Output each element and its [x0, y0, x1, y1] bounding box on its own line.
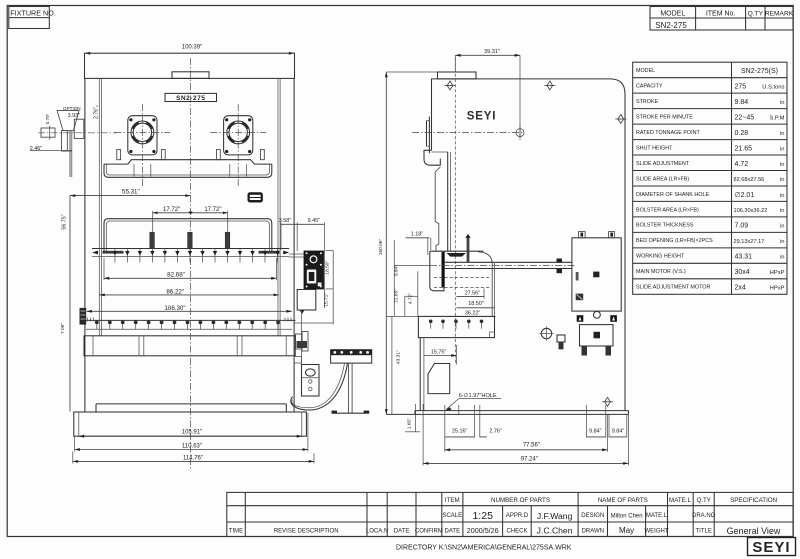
svg-text:∅2.01: ∅2.01 [735, 192, 755, 199]
overall height dim line 160.06 [378, 72, 437, 414]
svg-text:15.75": 15.75" [431, 350, 446, 356]
svg-text:43.31": 43.31" [395, 350, 401, 364]
svg-text:HPxP: HPxP [770, 270, 785, 276]
svg-text:CONFIRM: CONFIRM [415, 528, 443, 534]
side body outline [432, 79, 626, 411]
svg-text:DRAWN: DRAWN [582, 528, 604, 534]
svg-text:9.84: 9.84 [735, 99, 749, 106]
svg-text:MATE.L: MATE.L [646, 513, 668, 519]
dimension 100.39 top [85, 45, 294, 55]
svg-text:J.C.Chen: J.C.Chen [537, 526, 573, 536]
svg-text:SLIDE AREA (LR×FB): SLIDE AREA (LR×FB) [636, 176, 689, 182]
svg-text:2x4: 2x4 [735, 285, 746, 292]
svg-text:Q.TY: Q.TY [696, 497, 710, 504]
svg-text:in: in [780, 131, 785, 137]
svg-text:SEYI: SEYI [752, 539, 790, 556]
svg-text:18.50": 18.50" [324, 261, 330, 275]
svg-text:100.39": 100.39" [182, 45, 202, 51]
rear cover plate [424, 117, 440, 166]
svg-text:in: in [780, 239, 785, 245]
svg-text:1.65": 1.65" [406, 418, 412, 429]
svg-text:27.56": 27.56" [465, 291, 480, 297]
svg-text:ITEM No.: ITEM No. [706, 11, 736, 18]
svg-text:MAIN MOTOR (V.S.): MAIN MOTOR (V.S.) [636, 269, 686, 275]
slide screw black bar [442, 252, 445, 288]
svg-text:DATE: DATE [445, 528, 461, 534]
svg-text:56.75": 56.75" [61, 214, 67, 229]
svg-text:18.50": 18.50" [468, 301, 483, 307]
svg-text:General View: General View [727, 526, 781, 536]
svg-text:STROKE: STROKE [636, 99, 659, 105]
upright inner lines right [277, 78, 279, 335]
svg-text:82.68": 82.68" [167, 272, 185, 279]
title block row2 texts [442, 513, 715, 519]
left ratchet mechanism [80, 308, 87, 325]
upright inner lines left [98, 78, 100, 335]
svg-text:SPECIFICATION: SPECIFICATION [730, 497, 777, 504]
svg-text:1.18": 1.18" [411, 232, 423, 238]
svg-text:S.P.M: S.P.M [769, 115, 784, 121]
svg-text:DRA.NO: DRA.NO [692, 513, 716, 519]
svg-text:82.68x27.56: 82.68x27.56 [734, 177, 765, 183]
svg-text:2.46": 2.46" [30, 146, 42, 152]
svg-text:2.76": 2.76" [489, 429, 501, 435]
flange hidden lines under step [133, 164, 135, 176]
left vertical dimension 56.75 [61, 196, 70, 412]
svg-text:WORKING HEIGHT: WORKING HEIGHT [636, 254, 685, 260]
right flange cylinder [210, 104, 266, 186]
knockout pin [467, 236, 470, 262]
svg-text:NAME OF PARTS: NAME OF PARTS [598, 497, 648, 504]
position target symbol [540, 327, 554, 341]
svg-text:SN2-275: SN2-275 [176, 95, 205, 102]
svg-text:in: in [780, 193, 785, 199]
svg-text:STROKE PER MINUTE: STROKE PER MINUTE [636, 114, 693, 120]
side top tab [438, 72, 477, 79]
svg-text:NUMBER OF PARTS: NUMBER OF PARTS [491, 497, 550, 504]
dimension 114.76 [73, 452, 314, 464]
svg-text:7.09: 7.09 [735, 223, 749, 230]
slide top step band [104, 160, 272, 164]
hole callout 6-1.97 [445, 392, 501, 411]
svg-text:106.30x36.22: 106.30x36.22 [734, 208, 768, 214]
small block part [557, 335, 565, 349]
svg-text:55.31": 55.31" [122, 189, 140, 196]
crown outer side edges [84, 78, 86, 412]
SN2-275 nameplate [165, 93, 217, 102]
dimension 82.68 [104, 258, 277, 280]
left dim stack lines [386, 240, 446, 432]
dimension 77.56 [445, 414, 608, 451]
svg-text:DESIGN: DESIGN [581, 513, 604, 519]
svg-text:29.13x27.17: 29.13x27.17 [734, 239, 765, 245]
dimension 86.22 [100, 289, 279, 297]
svg-text:39.31": 39.31" [484, 49, 500, 55]
dimension 1.18 [406, 232, 431, 255]
svg-text:in: in [780, 177, 785, 183]
svg-text:May: May [619, 526, 634, 535]
svg-text:LOCA.N: LOCA.N [366, 528, 388, 534]
svg-text:in: in [780, 255, 785, 261]
svg-text:0.79": 0.79" [45, 113, 50, 124]
side base plate [386, 405, 628, 414]
cushion pins x3 [150, 232, 155, 248]
side control panel [289, 251, 323, 289]
svg-text:SCALE: SCALE [442, 513, 462, 519]
svg-text:0.28: 0.28 [735, 130, 749, 137]
dimension 36.22 [447, 311, 496, 317]
svg-text:21.65": 21.65" [393, 289, 399, 303]
top right model table [650, 7, 794, 31]
dimension 106.30 [87, 305, 292, 313]
svg-text:in: in [780, 224, 785, 230]
crown underside line [432, 151, 448, 153]
svg-text:FIXTURE NO.: FIXTURE NO. [10, 8, 56, 17]
svg-text:4.72: 4.72 [735, 161, 749, 168]
svg-text:77.56": 77.56" [523, 443, 540, 449]
right control dims 3.58 / 9.45 [279, 218, 325, 308]
svg-text:in: in [780, 146, 785, 152]
clamp wedge dark [447, 253, 466, 257]
svg-text:7.09": 7.09" [60, 323, 66, 334]
svg-text:97.24": 97.24" [521, 456, 538, 462]
svg-text:21.65: 21.65 [735, 145, 753, 152]
svg-text:2000/5/26: 2000/5/26 [467, 526, 499, 535]
front view vertical centerline [190, 58, 192, 470]
main motor box [572, 232, 621, 322]
left shank option mechanism [30, 106, 116, 177]
svg-text:RATED TONNAGE POINT: RATED TONNAGE POINT [636, 130, 701, 136]
bed bolt row [83, 318, 296, 330]
svg-text:275: 275 [735, 84, 747, 91]
svg-text:9.84": 9.84" [589, 429, 601, 435]
bed bolts [95, 321, 280, 330]
panel mounting box below [297, 290, 316, 365]
slide vertical centerline dashed [454, 58, 456, 365]
gib tabs on step band [117, 150, 121, 160]
dimension 110.63 [75, 413, 308, 452]
svg-text:HPxP: HPxP [770, 286, 785, 292]
fixture no. box [9, 7, 56, 29]
svg-text:CAPACITY: CAPACITY [636, 84, 663, 90]
svg-text:9.45": 9.45" [308, 218, 320, 224]
small gearbox right of bed [296, 332, 309, 352]
hidden dash lines bed opening [434, 277, 490, 279]
dimension 105.91 [79, 430, 302, 438]
svg-text:DATE: DATE [394, 528, 410, 534]
body front face curve [478, 252, 492, 317]
slide top plate [430, 250, 484, 252]
svg-text:105.91": 105.91" [182, 430, 202, 436]
bolster side view [418, 316, 494, 337]
svg-text:22~45: 22~45 [735, 114, 755, 121]
svg-text:SN2-275(S): SN2-275(S) [741, 68, 778, 75]
left flange cylinder [115, 104, 171, 186]
flexible hose to pedestal [291, 363, 348, 410]
svg-text:ITEM: ITEM [445, 497, 460, 504]
svg-text:MATE.L: MATE.L [669, 497, 691, 504]
rail studs [113, 249, 280, 263]
slide adjust motor box [580, 325, 614, 356]
svg-text:Q.TY: Q.TY [748, 11, 764, 18]
svg-text:25.16": 25.16" [452, 429, 467, 435]
svg-text:17.72": 17.72" [163, 207, 180, 213]
svg-text:TITLE: TITLE [696, 528, 712, 534]
svg-text:43.31: 43.31 [735, 254, 753, 261]
knockout rail [92, 249, 289, 257]
svg-text:DIRECTORY K:\SN2\AMERICA\GENER: DIRECTORY K:\SN2\AMERICA\GENERAL\275SA.W… [396, 545, 572, 552]
svg-text:APPR.D: APPR.D [506, 513, 529, 519]
svg-text:SLIDE ADJUSTMENT: SLIDE ADJUSTMENT [636, 161, 690, 167]
svg-text:U.S.tons: U.S.tons [762, 85, 784, 91]
slide band [104, 164, 272, 177]
svg-text:2.76"₀: 2.76"₀ [94, 105, 100, 119]
svg-text:SN2-275: SN2-275 [655, 21, 687, 30]
svg-text:4.72": 4.72" [408, 293, 414, 304]
crankshaft centerline and target [412, 125, 524, 140]
title block grid [227, 492, 793, 536]
dimension 15.75 [424, 345, 457, 365]
svg-text:6-∅1.97"HOLE: 6-∅1.97"HOLE [459, 392, 497, 399]
slide guides [447, 152, 449, 251]
scrap chute [428, 364, 450, 394]
svg-text:SHUT HEIGHT: SHUT HEIGHT [636, 145, 673, 151]
svg-text:160.06": 160.06" [378, 239, 384, 256]
title block row3 texts [229, 528, 712, 534]
svg-text:DIAMETER OF SHANK HOLE: DIAMETER OF SHANK HOLE [636, 192, 709, 198]
slide lower block [430, 251, 444, 291]
bolster [84, 336, 295, 356]
bottom dims of side view [445, 414, 627, 451]
dimensions 17.72 / 17.72 [153, 207, 228, 232]
title block header texts [445, 497, 777, 504]
svg-text:36.22": 36.22" [465, 311, 480, 317]
svg-text:30x4: 30x4 [735, 269, 750, 276]
crown lifting tab [172, 72, 209, 79]
drive rod to motor [430, 259, 575, 274]
svg-text:110.63": 110.63" [182, 444, 202, 450]
svg-text:17.72": 17.72" [204, 207, 221, 213]
dimension 27.56 [457, 289, 485, 299]
svg-text:REMARK: REMARK [765, 11, 794, 18]
svg-text:in: in [780, 162, 785, 168]
svg-text:1:25: 1:25 [472, 510, 493, 522]
svg-text:BED OPENING (LR×FB)×2PCS: BED OPENING (LR×FB)×2PCS [636, 238, 713, 244]
slide adjust indicator plate [248, 192, 263, 202]
datum markers [445, 81, 627, 406]
svg-text:BOLSTER THICKNESS: BOLSTER THICKNESS [636, 223, 694, 229]
svg-text:J.F.Wang: J.F.Wang [537, 511, 573, 521]
bed upper deck [104, 219, 272, 252]
svg-text:BOLSTER AREA (LR×FB): BOLSTER AREA (LR×FB) [636, 207, 699, 213]
svg-text:MODEL: MODEL [636, 68, 655, 74]
svg-text:in: in [780, 100, 785, 106]
svg-text:9.84": 9.84" [394, 265, 400, 276]
dimension 97.24 [423, 404, 628, 465]
svg-text:MODEL: MODEL [660, 11, 685, 18]
svg-text:15.71": 15.71" [323, 293, 329, 307]
svg-text:TIME: TIME [229, 528, 243, 534]
dimension 55.31 [70, 189, 191, 197]
svg-text:9.84": 9.84" [612, 429, 624, 435]
dimension 18.50 [457, 262, 495, 318]
svg-text:CHECK: CHECK [506, 528, 527, 534]
svg-text:Milton Chen: Milton Chen [611, 513, 643, 519]
SEYI logo box bottom right [748, 538, 796, 557]
svg-text:in: in [780, 208, 785, 214]
column front legs [419, 338, 421, 411]
svg-text:WEIGHT: WEIGHT [645, 528, 669, 534]
crown top plate [85, 53, 295, 78]
svg-text:114.76": 114.76" [183, 456, 203, 462]
dimension 39.31 [455, 49, 520, 137]
lower right bracket [294, 357, 319, 397]
base pedestal of front view [74, 404, 307, 436]
svg-text:SLIDE ADJUSTMENT MOTOR: SLIDE ADJUSTMENT MOTOR [636, 285, 710, 291]
svg-text:SEYI: SEYI [467, 111, 496, 123]
operator pedestal stand [331, 350, 372, 414]
svg-text:REVISE DESCRIPTION: REVISE DESCRIPTION [274, 528, 339, 534]
specification table [633, 62, 787, 294]
